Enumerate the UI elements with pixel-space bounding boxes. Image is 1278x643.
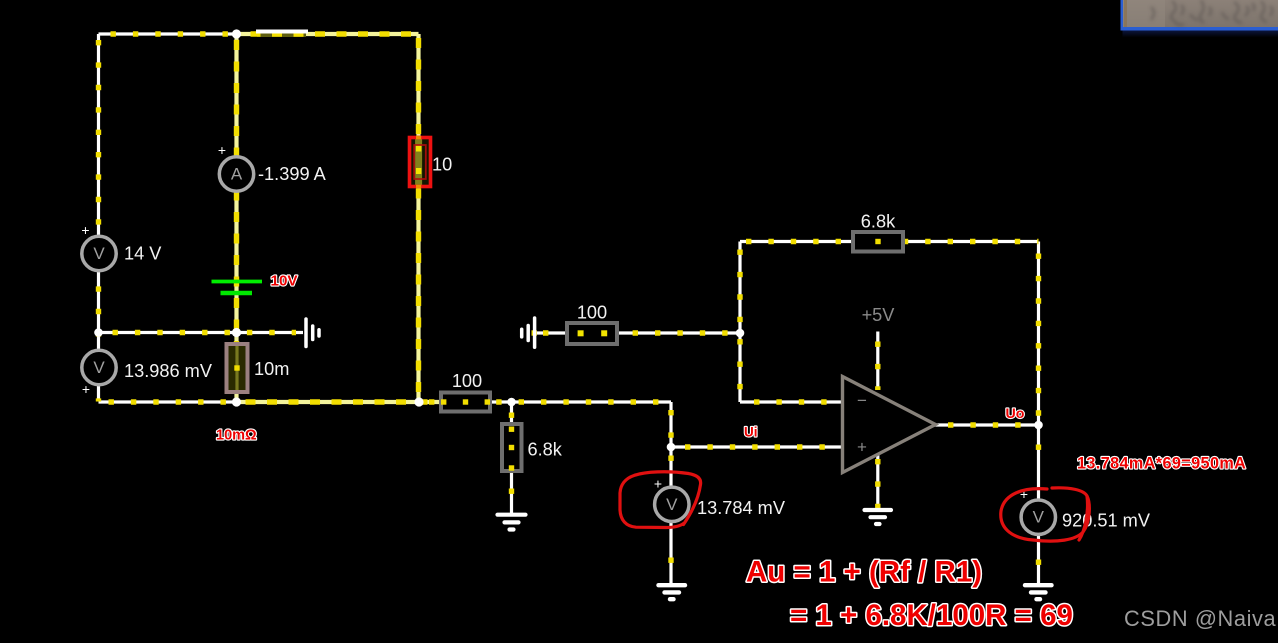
svg-text:Ui: Ui bbox=[744, 425, 758, 440]
svg-text:10: 10 bbox=[432, 155, 452, 175]
svg-text:+5V: +5V bbox=[862, 305, 896, 325]
svg-text:= 1 + 6.8K/100R = 69: = 1 + 6.8K/100R = 69 bbox=[790, 599, 1073, 632]
svg-text:-1.399 A: -1.399 A bbox=[258, 164, 327, 184]
svg-text:920.51 mV: 920.51 mV bbox=[1062, 511, 1151, 531]
svg-text:A: A bbox=[231, 165, 243, 184]
svg-text:10m: 10m bbox=[254, 359, 289, 379]
svg-text:+: + bbox=[81, 222, 89, 238]
svg-text:+: + bbox=[82, 381, 90, 397]
svg-text:V: V bbox=[1033, 508, 1045, 527]
svg-text:13.986 mV: 13.986 mV bbox=[124, 361, 213, 381]
svg-text:6.8k: 6.8k bbox=[528, 440, 563, 460]
svg-text:6.8k: 6.8k bbox=[861, 212, 896, 232]
svg-text:10V: 10V bbox=[271, 273, 299, 290]
svg-text:+: + bbox=[218, 142, 226, 158]
svg-text:CSDN @Naiva: CSDN @Naiva bbox=[1124, 606, 1277, 631]
svg-text:13.784mA*69=950mA: 13.784mA*69=950mA bbox=[1077, 455, 1246, 473]
svg-text:13.784 mV: 13.784 mV bbox=[697, 498, 786, 518]
svg-text:+: + bbox=[857, 438, 867, 457]
svg-text:Uo: Uo bbox=[1006, 406, 1025, 422]
svg-text:V: V bbox=[93, 358, 105, 377]
svg-text:14 V: 14 V bbox=[124, 244, 162, 264]
svg-text:100: 100 bbox=[452, 371, 482, 391]
svg-text:+: + bbox=[654, 476, 662, 492]
svg-text:V: V bbox=[93, 244, 105, 263]
svg-text:10mΩ: 10mΩ bbox=[216, 428, 257, 444]
svg-text:Au = 1 + (Rf / R1): Au = 1 + (Rf / R1) bbox=[746, 556, 982, 589]
svg-text:V: V bbox=[666, 495, 678, 514]
svg-text:−: − bbox=[857, 391, 867, 410]
svg-text:100: 100 bbox=[577, 303, 607, 323]
